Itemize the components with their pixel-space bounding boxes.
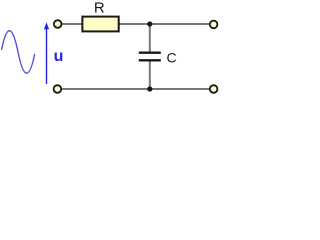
wire capacitor branch lower — [149, 62, 151, 90]
source sine wave symbol — [2, 31, 35, 74]
svg-text:C: C — [167, 50, 177, 66]
svg-text:u: u — [54, 48, 64, 65]
junction bottom node — [147, 86, 152, 91]
wire top — [58, 23, 214, 25]
capacitor C plate bottom — [139, 59, 161, 61]
junction top node — [147, 21, 152, 26]
resistor R1 body — [82, 17, 118, 32]
terminal bottom-right — [210, 85, 218, 93]
wire capacitor branch upper — [149, 24, 151, 52]
terminal top-left — [54, 20, 62, 28]
wire bottom — [58, 88, 214, 90]
terminal top-right — [210, 21, 218, 29]
terminal bottom-left — [54, 85, 62, 93]
svg-text:R: R — [94, 0, 105, 16]
voltage arrow u (shaft) — [46, 28, 48, 84]
capacitor C plate top — [139, 52, 161, 54]
voltage arrow u (head) — [44, 22, 49, 29]
